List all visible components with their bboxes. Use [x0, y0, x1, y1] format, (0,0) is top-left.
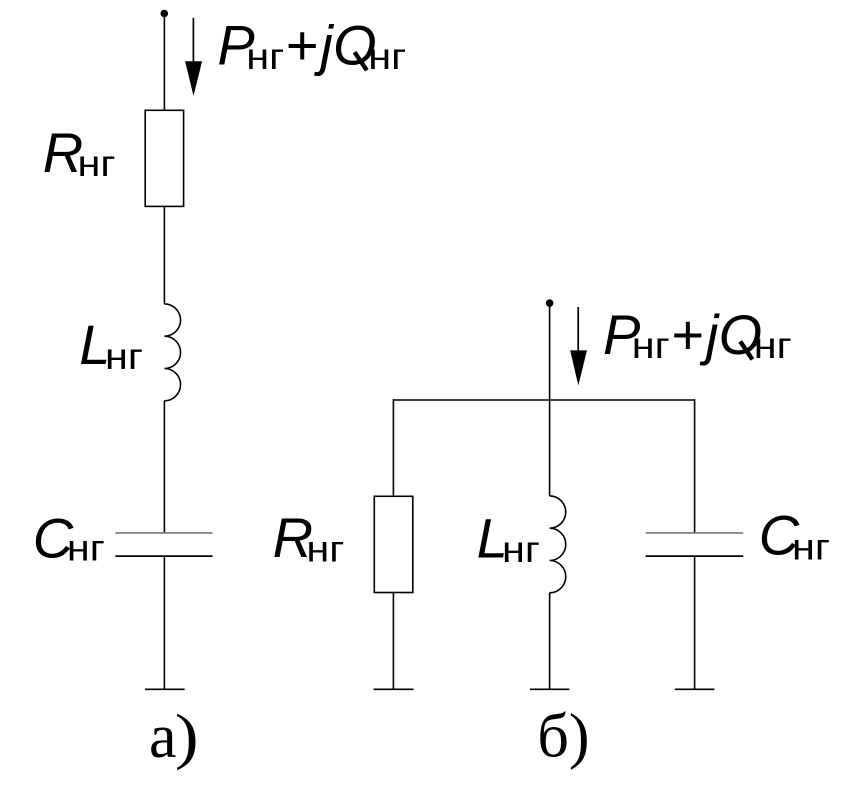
wire bus to capacitor (b) — [694, 399, 696, 533]
wire inductor to ground (b) — [549, 593, 551, 690]
wire bus to inductor (b) — [549, 400, 551, 496]
inductor Lнг (b) — [550, 496, 566, 593]
wire resistor to inductor (a) — [163, 206, 165, 304]
Q tail stroke (a) — [355, 52, 367, 70]
wire capacitor to ground (b) — [694, 556, 696, 689]
resistor Rнг (a) — [145, 110, 183, 206]
svg-text:нг: нг — [246, 36, 284, 77]
ground capacitor branch (b) — [675, 688, 715, 690]
wire resistor to ground (b) — [392, 593, 394, 690]
capacitor Cнг (a) bottom plate — [115, 555, 212, 557]
bus wire (b) — [393, 399, 694, 401]
arrow Pнг+jQнг (a) — [185, 18, 202, 96]
node dot circuit b input — [546, 299, 554, 307]
capacitor Cнг (a) top plate — [115, 532, 212, 534]
svg-text:нг: нг — [67, 528, 105, 569]
wire input to bus (b) — [549, 303, 551, 400]
svg-text:): ) — [175, 702, 199, 771]
wire inductor to capacitor (a) — [163, 401, 165, 533]
capacitor Cнг (b) top plate — [646, 532, 744, 534]
wire input to resistor R (a) — [163, 14, 165, 111]
arrow Pнг+jQнг (b) — [570, 307, 587, 385]
ground inductor branch (b) — [530, 688, 569, 690]
Q tail stroke (b) — [740, 341, 752, 359]
svg-text:б): б) — [537, 703, 589, 771]
svg-text:нг: нг — [792, 527, 830, 568]
svg-text:нг: нг — [368, 36, 406, 77]
svg-text:нг: нг — [632, 325, 670, 366]
svg-text:нг: нг — [754, 325, 792, 366]
ground (a) — [145, 688, 185, 690]
capacitor Cнг (b) bottom plate — [646, 555, 744, 557]
svg-text:+: + — [286, 14, 319, 77]
wire capacitor to ground (a) — [163, 556, 165, 689]
svg-text:+: + — [672, 303, 705, 366]
svg-text:а: а — [149, 703, 177, 771]
svg-text:нг: нг — [502, 529, 540, 570]
svg-text:нг: нг — [78, 143, 116, 184]
resistor Rнг (b) — [374, 496, 413, 592]
node dot circuit a input — [161, 10, 169, 18]
ground resistor branch (b) — [374, 688, 414, 690]
wire bus to resistor (b) — [392, 399, 394, 496]
svg-text:нг: нг — [105, 336, 143, 377]
svg-text:нг: нг — [306, 529, 344, 570]
inductor Lнг (a) — [164, 304, 180, 401]
